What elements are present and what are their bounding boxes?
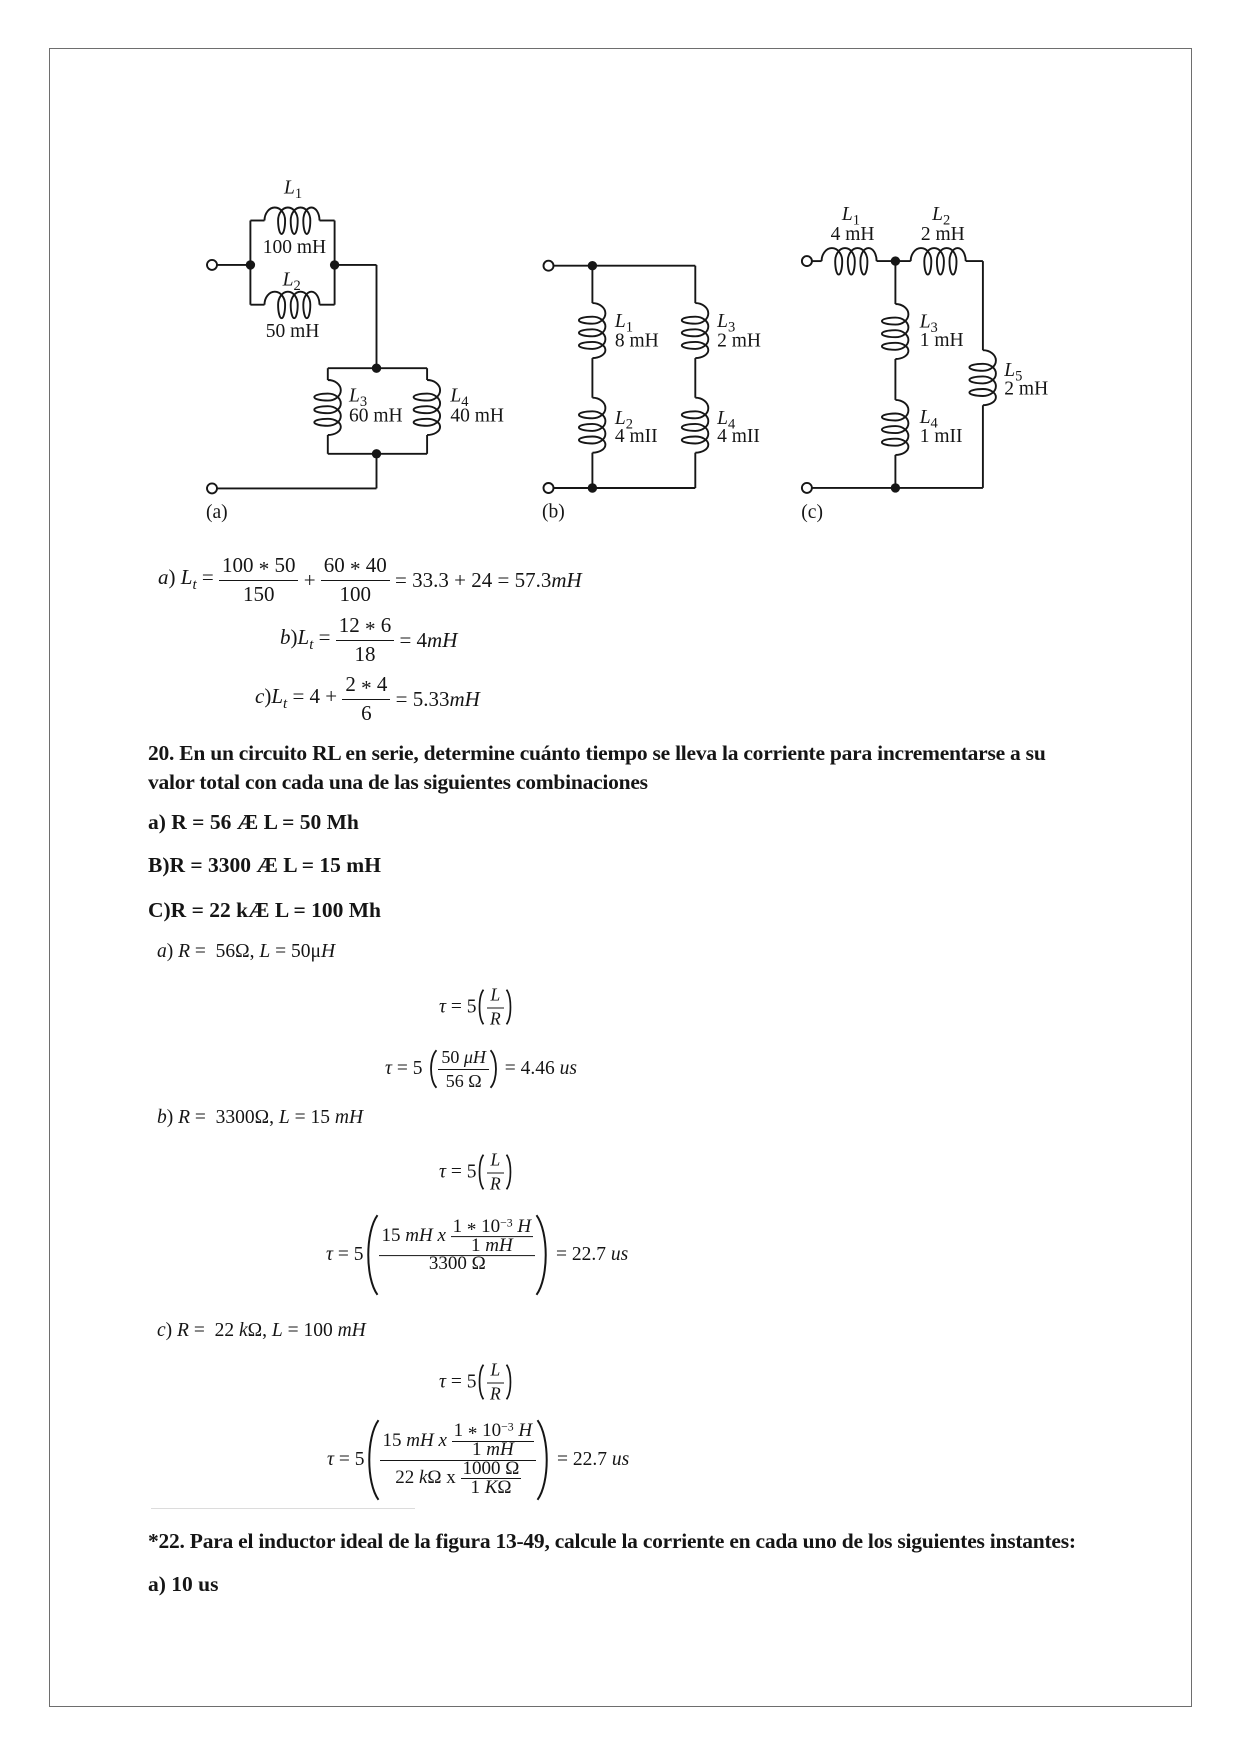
svg-text:(b): (b) [542, 502, 565, 523]
svg-text:L1: L1 [283, 177, 302, 202]
svg-text:4 mH: 4 mH [831, 224, 875, 245]
svg-text:2 mH: 2 mH [1004, 379, 1048, 400]
svg-text:4 mII: 4 mII [615, 426, 658, 447]
svg-text:50 mH: 50 mH [266, 321, 320, 342]
svg-text:8 mH: 8 mH [615, 331, 659, 352]
svg-text:(a): (a) [206, 502, 228, 523]
svg-text:2 mH: 2 mH [921, 224, 965, 245]
svg-text:(c): (c) [801, 502, 823, 523]
svg-text:1 mII: 1 mII [920, 426, 963, 447]
svg-text:2 mH: 2 mH [717, 331, 761, 352]
svg-text:60 mH: 60 mH [349, 405, 403, 426]
svg-text:40 mH: 40 mH [450, 405, 504, 426]
svg-text:4 mII: 4 mII [717, 426, 760, 447]
svg-text:100 mH: 100 mH [263, 237, 326, 258]
svg-text:L2: L2 [282, 269, 301, 294]
svg-text:1 mH: 1 mH [920, 330, 964, 351]
